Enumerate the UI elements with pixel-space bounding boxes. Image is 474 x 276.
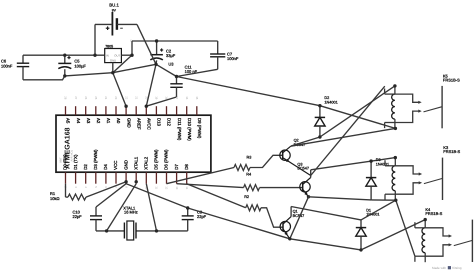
svg-text:100 nF: 100 nF — [185, 69, 198, 74]
svg-text:A4: A4 — [76, 118, 81, 124]
svg-text:17: 17 — [175, 96, 179, 100]
svg-text:14: 14 — [185, 186, 189, 190]
svg-text:D11 (PWM): D11 (PWM) — [177, 118, 182, 141]
svg-text:24: 24 — [104, 96, 108, 100]
svg-text:A0: A0 — [116, 118, 121, 124]
svg-text:22pF: 22pF — [73, 214, 83, 219]
svg-text:R3: R3 — [247, 156, 252, 160]
svg-text:9V: 9V — [112, 8, 117, 12]
svg-text:18: 18 — [165, 96, 169, 100]
svg-text:D3 (PWM): D3 (PWM) — [93, 149, 98, 170]
svg-text:16 MHz: 16 MHz — [124, 210, 138, 215]
svg-text:22: 22 — [124, 96, 128, 100]
svg-text:AREF: AREF — [136, 118, 141, 130]
svg-text:12: 12 — [165, 186, 169, 190]
svg-text:23: 23 — [114, 96, 118, 100]
svg-text:fritzing: fritzing — [452, 266, 461, 270]
svg-text:100nF: 100nF — [1, 63, 13, 68]
svg-text:AVCC: AVCC — [147, 118, 152, 130]
svg-text:XTAL1: XTAL1 — [133, 156, 138, 170]
svg-text:1N4001: 1N4001 — [324, 101, 337, 105]
svg-text:D8: D8 — [184, 164, 189, 170]
svg-text:33µF: 33µF — [166, 53, 176, 58]
svg-text:22pF: 22pF — [197, 214, 207, 219]
svg-text:27: 27 — [74, 96, 78, 100]
svg-text:100µF: 100µF — [74, 63, 86, 68]
svg-text:A2: A2 — [96, 118, 101, 124]
svg-text:A5: A5 — [66, 118, 71, 124]
svg-text:U3: U3 — [168, 62, 174, 67]
svg-text:D10 (PWM): D10 (PWM) — [187, 118, 192, 141]
svg-text:XTAL2: XTAL2 — [144, 156, 149, 170]
svg-text:BC547: BC547 — [293, 214, 305, 218]
svg-text:25: 25 — [94, 96, 98, 100]
svg-text:R4: R4 — [246, 172, 251, 176]
svg-text:BU.1: BU.1 — [109, 3, 119, 8]
svg-text:16: 16 — [185, 96, 189, 100]
svg-text:VCC: VCC — [113, 161, 118, 170]
svg-text:D1 (TX): D1 (TX) — [73, 154, 78, 170]
svg-text:10kΩ: 10kΩ — [50, 196, 59, 201]
svg-text:D0 (RX): D0 (RX) — [63, 154, 68, 170]
svg-text:FRS1B-S: FRS1B-S — [425, 211, 442, 216]
svg-text:BC547: BC547 — [297, 167, 309, 171]
svg-text:26: 26 — [84, 96, 88, 100]
svg-text:D4: D4 — [103, 164, 108, 170]
svg-text:D9 (PWM): D9 (PWM) — [197, 118, 202, 139]
svg-text:28: 28 — [64, 96, 68, 100]
svg-text:GND: GND — [126, 118, 131, 128]
svg-text:GND: GND — [110, 58, 116, 62]
svg-text:GND: GND — [123, 160, 128, 170]
svg-text:D2: D2 — [83, 164, 88, 170]
svg-text:A3: A3 — [86, 118, 91, 124]
svg-text:IN: IN — [106, 54, 109, 58]
svg-text:D7: D7 — [174, 164, 179, 170]
svg-text:7805: 7805 — [105, 44, 113, 48]
svg-text:D5 (PWM): D5 (PWM) — [154, 149, 159, 170]
svg-text:D13: D13 — [157, 118, 162, 127]
svg-text:Made with: Made with — [432, 266, 446, 270]
svg-text:R2: R2 — [244, 195, 249, 199]
svg-text:15: 15 — [195, 96, 199, 100]
svg-text:OUT: OUT — [114, 54, 120, 58]
svg-text:U: U — [130, 40, 132, 43]
svg-text:FRS1B-S: FRS1B-S — [443, 78, 460, 83]
svg-text:19: 19 — [155, 96, 159, 100]
svg-text:D12: D12 — [167, 118, 172, 127]
svg-text:20: 20 — [145, 96, 149, 100]
svg-text:11: 11 — [155, 186, 159, 189]
svg-text:D6 (PWM): D6 (PWM) — [164, 149, 169, 170]
svg-text:A1: A1 — [106, 118, 111, 124]
svg-text:100nF: 100nF — [227, 56, 239, 61]
svg-text:21: 21 — [134, 96, 138, 100]
svg-text:13: 13 — [175, 186, 179, 190]
svg-text:FRS1B-S: FRS1B-S — [443, 149, 460, 154]
